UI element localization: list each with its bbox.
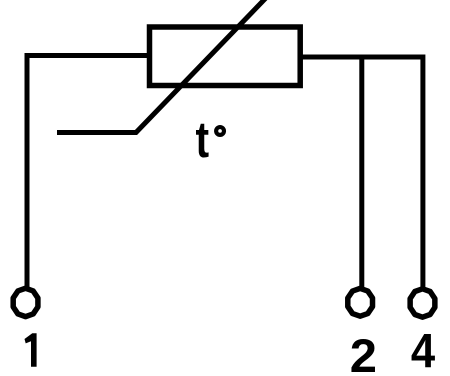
terminal pin 2 (348, 288, 373, 316)
thermistor strike line (bent diagonal, temperature dependence) (57, 0, 267, 133)
svg-text:4: 4 (411, 323, 436, 376)
terminal pin 4 (410, 289, 435, 317)
thermistor body (150, 27, 301, 86)
wire junction branch down to pin2 (359, 57, 364, 288)
wire thermistor right side to pin4 corner (301, 57, 423, 289)
svg-text:2: 2 (350, 330, 377, 376)
value label degree ring (216, 127, 224, 135)
svg-text:t: t (196, 111, 210, 168)
pin number 1 (25, 333, 37, 367)
terminal pin 1 (13, 288, 38, 316)
wire pin1 to thermistor left side (27, 56, 150, 289)
